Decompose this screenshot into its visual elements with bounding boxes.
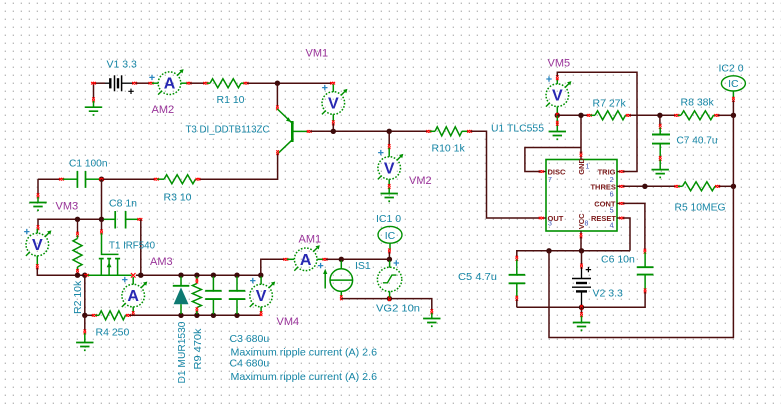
- wire (emitter to R3 row): [199, 154, 278, 179]
- pin OUT 3: [542, 217, 546, 219]
- ground (VG2): [431, 309, 434, 314]
- ammeter AM3: [132, 277, 134, 284]
- node: [211, 313, 216, 318]
- node: [731, 113, 736, 118]
- wire: [310, 130, 428, 132]
- IC ellipse IC2: [721, 76, 745, 91]
- wire: [190, 82, 205, 84]
- battery V2: [580, 264, 583, 269]
- node: [339, 257, 344, 262]
- capacitor C1: [59, 178, 64, 181]
- MOSFET T1: [101, 219, 103, 231]
- wire (DISC loop): [525, 148, 581, 172]
- wire (right loop): [549, 115, 733, 337]
- node (VM5 bottom): [555, 113, 560, 118]
- svg-text:IC: IC: [728, 78, 739, 90]
- wire: [719, 185, 734, 187]
- node: [387, 257, 392, 262]
- node: [258, 273, 263, 278]
- svg-text:VM2: VM2: [409, 175, 432, 187]
- svg-text:R1 10: R1 10: [217, 94, 245, 106]
- svg-text:C6 10n: C6 10n: [601, 254, 635, 266]
- wire (C1 node down): [101, 179, 103, 219]
- resistor R3: [103, 178, 155, 180]
- ground (V2): [581, 307, 583, 313]
- svg-text:7: 7: [548, 177, 552, 184]
- wire: [84, 275, 86, 315]
- wire: [38, 178, 61, 180]
- node: [178, 273, 183, 278]
- svg-text:C3 680u: C3 680u: [230, 333, 270, 345]
- voltmeter VM1: [330, 82, 335, 85]
- svg-text:T3 DI_DDTB113ZC: T3 DI_DDTB113ZC: [186, 124, 270, 136]
- wire (VM3 bottom to rail): [37, 268, 85, 275]
- node: [234, 273, 239, 278]
- ground (VM2): [388, 188, 390, 194]
- wire (MOSFET bus): [84, 274, 89, 277]
- resistor R5: [675, 185, 680, 188]
- resistor R7: [587, 114, 592, 117]
- wire: [332, 124, 334, 132]
- current source IS1: [340, 261, 342, 269]
- wire: [94, 82, 106, 84]
- svg-text:C4 680u: C4 680u: [230, 358, 270, 370]
- wire: [623, 185, 676, 187]
- svg-text:R3 10: R3 10: [164, 192, 192, 204]
- node: [642, 184, 647, 189]
- svg-text:Maximum ripple current (A) 2.6: Maximum ripple current (A) 2.6: [231, 371, 378, 383]
- node (AM3 top X): [131, 273, 136, 278]
- wire (C6 bottom rail): [517, 292, 645, 307]
- wire (TRIG loop): [557, 72, 637, 171]
- ground (C7): [659, 160, 661, 170]
- node: [178, 313, 183, 318]
- svg-text:AM1: AM1: [299, 234, 322, 246]
- pin GND 1: [580, 155, 582, 160]
- wire: [136, 82, 151, 84]
- svg-text:C5 4.7u: C5 4.7u: [458, 271, 497, 283]
- pin TRIG 2: [617, 171, 621, 173]
- wire: [629, 114, 676, 116]
- pin VCC 8: [580, 231, 582, 235]
- svg-text:DISC: DISC: [548, 168, 567, 177]
- wire (rail up to AM1): [261, 259, 285, 275]
- svg-text:D1 MUR1530: D1 MUR1530: [176, 321, 188, 383]
- node (R1/T3/VM1): [275, 81, 280, 86]
- wire (source bottom rail): [341, 299, 432, 311]
- wire (RESET to rail): [623, 218, 630, 251]
- svg-text:A: A: [164, 76, 176, 93]
- IC ellipse IC1: [378, 226, 402, 243]
- capacitor C8: [104, 218, 115, 220]
- svg-text:V: V: [32, 237, 43, 254]
- wire: [557, 114, 588, 116]
- svg-text:V: V: [328, 96, 339, 113]
- voltmeter VM3: [37, 225, 40, 230]
- svg-text:VG2 10n: VG2 10n: [376, 303, 420, 315]
- ground (VM5): [556, 115, 558, 131]
- transistor T3: [276, 106, 279, 111]
- svg-text:4: 4: [610, 222, 614, 229]
- capacitor C4: [236, 277, 238, 291]
- resistor R4: [85, 314, 94, 316]
- wire: [718, 114, 734, 116]
- node: [731, 184, 736, 189]
- svg-text:VM1: VM1: [306, 48, 329, 60]
- node: [138, 273, 143, 278]
- ammeter AM2: [149, 82, 154, 85]
- wire: [732, 101, 734, 116]
- svg-text:1: 1: [586, 163, 590, 170]
- svg-text:THRES: THRES: [590, 182, 615, 191]
- capacitor C5: [516, 256, 519, 261]
- wire (C8 to lower rail): [140, 219, 142, 275]
- svg-text:IC2 0: IC2 0: [719, 63, 744, 75]
- svg-text:R5 10MEG: R5 10MEG: [675, 202, 726, 214]
- node: [75, 217, 80, 222]
- wire: [247, 82, 332, 84]
- node: [82, 313, 87, 318]
- wire (R10 to OUT pin): [471, 131, 541, 218]
- IC U1 TLC555 box: [546, 160, 617, 232]
- svg-text:T1 IRF540: T1 IRF540: [109, 240, 155, 252]
- pin THRES 6: [617, 185, 621, 187]
- ammeter AM1: [283, 258, 288, 261]
- svg-text:R7 27k: R7 27k: [593, 98, 627, 110]
- capacitor C6: [644, 249, 647, 254]
- svg-text:V2 3.3: V2 3.3: [593, 288, 624, 300]
- svg-text:3: 3: [548, 220, 552, 227]
- svg-text:A: A: [127, 288, 139, 305]
- voltmeter VM4: [260, 277, 262, 285]
- svg-text:C7 40.7u: C7 40.7u: [677, 135, 718, 147]
- wire (bottom rail): [129, 314, 260, 316]
- svg-text:U1 TLC555: U1 TLC555: [491, 123, 544, 135]
- diode D1: [180, 277, 182, 286]
- svg-text:V: V: [384, 161, 395, 178]
- svg-text:C1 100n: C1 100n: [69, 158, 108, 170]
- svg-text:IC: IC: [385, 230, 396, 242]
- svg-text:AM2: AM2: [152, 104, 175, 116]
- battery V1: [105, 82, 110, 84]
- wire: [136, 274, 261, 276]
- node (V2 bottom): [579, 305, 584, 310]
- generator VG2: [389, 261, 391, 268]
- svg-text:V1 3.3: V1 3.3: [107, 59, 138, 71]
- capacitor C7: [659, 115, 661, 125]
- svg-text:8: 8: [585, 220, 589, 227]
- svg-text:VM3: VM3: [56, 201, 79, 213]
- pin RESET 4: [617, 217, 621, 219]
- wire: [276, 83, 278, 107]
- svg-text:R9 470k: R9 470k: [192, 328, 204, 370]
- resistor R9: [196, 277, 198, 281]
- pin CONT 5: [617, 202, 621, 204]
- svg-text:6: 6: [610, 192, 614, 199]
- node (C1 right): [99, 177, 104, 182]
- node: [75, 273, 80, 278]
- svg-text:V: V: [552, 88, 563, 105]
- svg-text:AM3: AM3: [150, 256, 173, 268]
- resistor R2: [77, 219, 79, 233]
- svg-text:R4 250: R4 250: [96, 327, 130, 339]
- resistor R1: [203, 82, 208, 85]
- svg-text:IC1 0: IC1 0: [376, 213, 401, 225]
- node: [579, 248, 584, 253]
- wire (GND pin up): [580, 115, 582, 153]
- svg-text:V: V: [256, 288, 267, 305]
- node: [82, 273, 87, 278]
- svg-text:A: A: [300, 252, 312, 269]
- node: [234, 313, 239, 318]
- node: [578, 113, 583, 118]
- resistor R8: [674, 114, 679, 117]
- capacitor C3: [212, 277, 214, 291]
- svg-text:IS1: IS1: [355, 260, 371, 272]
- node: [194, 313, 199, 318]
- wire (CONT to C6): [623, 203, 645, 250]
- svg-text:R8 38k: R8 38k: [681, 97, 715, 109]
- node: [657, 113, 662, 118]
- pin DISC 7: [542, 171, 546, 173]
- voltmeter VM2: [388, 131, 390, 146]
- wire: [516, 299, 518, 307]
- ground (R4 branch): [84, 315, 86, 331]
- ground (V1 left): [93, 83, 95, 99]
- node: [546, 248, 551, 253]
- node: [331, 129, 336, 134]
- wire: [581, 251, 583, 265]
- svg-text:VM4: VM4: [277, 316, 300, 328]
- wire: [38, 219, 102, 227]
- node: [387, 296, 392, 301]
- svg-text:C8 1n: C8 1n: [109, 198, 137, 210]
- voltmeter VM5: [556, 79, 558, 85]
- wire: [326, 258, 341, 260]
- node: [387, 129, 392, 134]
- ground (C1 left): [37, 179, 39, 195]
- node: [99, 217, 104, 222]
- svg-text:R2 10k: R2 10k: [72, 280, 84, 314]
- node: [211, 273, 216, 278]
- node: [194, 273, 199, 278]
- svg-text:TRIG: TRIG: [598, 168, 616, 177]
- wire: [580, 237, 582, 251]
- wire: [341, 258, 389, 260]
- svg-text:R10 1k: R10 1k: [432, 143, 466, 155]
- wire: [388, 252, 390, 258]
- resistor R10: [426, 130, 431, 133]
- wire (VCC rail): [517, 251, 630, 258]
- svg-text:VM5: VM5: [548, 58, 571, 70]
